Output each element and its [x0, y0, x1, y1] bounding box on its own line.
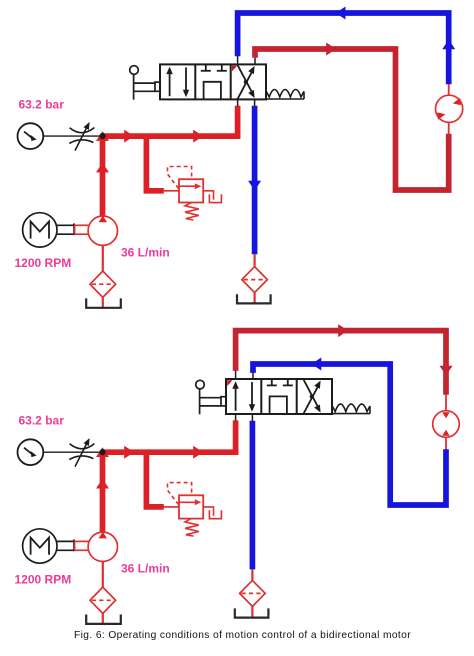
svg-text:1200 RPM: 1200 RPM	[15, 572, 72, 586]
DV1 right position: crossed flow arrows	[238, 65, 255, 98]
wire: pump pressure riser (fig 2)	[96, 447, 109, 532]
value label "63.2 bar" (fig 1)	[19, 98, 65, 112]
svg-text:36 L/min: 36 L/min	[121, 246, 170, 260]
DV1 left position: parallel flow arrows	[166, 67, 189, 98]
wire: T-port return to filter (blue, fig 1)	[248, 99, 261, 303]
shaft coupling motor-pump (fig 2)	[57, 540, 89, 552]
pressure gauge G2 (63.2 bar)	[18, 439, 44, 465]
tank T1b (relief drain)	[209, 194, 221, 202]
shaft coupling motor-pump (fig 1)	[57, 223, 89, 235]
hydraulic motor HM1 (bidirectional)	[436, 95, 463, 122]
hydraulic pump P1	[88, 216, 117, 246]
svg-text:36 L/min: 36 L/min	[121, 562, 170, 576]
wire: T-port return to filter (blue, fig 2)	[251, 415, 253, 618]
suction filter F1a	[90, 271, 116, 297]
electric motor M2	[23, 529, 57, 563]
directional valve DV2 4/3 body	[226, 379, 332, 414]
flow control valve FC2	[69, 438, 94, 467]
node: supply junction J2	[100, 449, 106, 455]
tank T1c (return)	[237, 294, 271, 303]
wire: pump suction line (fig 1)	[102, 245, 104, 307]
wire: B-port return line motor to valve (blue, fig 2)	[253, 358, 446, 506]
svg-text:Fig. 6: Operating conditions o: Fig. 6: Operating conditions of motion c…	[74, 630, 411, 641]
return filter F2b	[240, 580, 266, 606]
directional valve DV1 4/3 body	[160, 64, 266, 99]
flow control valve FC1	[69, 122, 94, 151]
pressure relief valve RV1	[168, 167, 214, 221]
wire: supply rail to valve P port (fig 2)	[103, 414, 236, 459]
wire: supply rail to valve P port (fig 1)	[103, 99, 238, 142]
wire: gauge line to junction (fig 1)	[43, 135, 102, 137]
tank T2c (return)	[235, 608, 269, 617]
DV2 return spring	[332, 404, 370, 414]
return filter F1b	[242, 267, 268, 293]
DV1 manual lever actuator	[130, 66, 161, 100]
DV1 centre position: blocked ports	[201, 64, 227, 99]
value label "1200 RPM" (fig 1)	[15, 256, 72, 270]
DV2 right position: crossed flow arrows	[304, 380, 321, 413]
wire: A-port return line valve to motor (blue, fig 1)	[238, 7, 456, 96]
wire: relief valve branch (fig 2)	[146, 454, 179, 507]
svg-text:63.2 bar: 63.2 bar	[19, 414, 65, 428]
node: supply junction J1	[100, 133, 106, 139]
hydraulic motor HM2 (bidirectional)	[433, 411, 460, 438]
DV2 centre position: blocked ports	[267, 379, 293, 414]
svg-text:63.2 bar: 63.2 bar	[19, 98, 65, 112]
caption: figure title	[74, 630, 411, 641]
value label "63.2 bar" (fig 2)	[19, 414, 65, 428]
value label "36 L/min" (fig 1)	[121, 246, 170, 260]
svg-text:1200 RPM: 1200 RPM	[15, 256, 72, 270]
DV2 manual lever actuator	[196, 380, 227, 414]
DV2 left position: parallel flow arrows	[232, 381, 255, 412]
electric motor M1	[23, 213, 57, 247]
DV1 pressurised port wedge	[232, 66, 237, 72]
wire: relief valve branch (fig 1)	[146, 138, 179, 191]
value label "36 L/min" (fig 2)	[121, 562, 170, 576]
value label "1200 RPM" (fig 2)	[15, 572, 72, 586]
tank T1a (suction)	[86, 298, 121, 307]
DV2 pressurised port wedge	[227, 380, 232, 386]
DV1 return spring	[266, 90, 304, 100]
wire: pump suction line (fig 2)	[102, 562, 104, 624]
wire: B-port pressure line valve to motor (red, fig 1)	[255, 43, 449, 191]
wire: A-port pressure line valve to motor (red, fig 2)	[236, 324, 453, 411]
suction filter F2a	[90, 587, 116, 613]
tank T2b (relief drain)	[209, 510, 221, 518]
tank T2a (suction)	[86, 615, 121, 624]
wire: pump pressure riser (fig 1)	[96, 131, 109, 216]
hydraulic pump P2	[88, 532, 117, 562]
pressure relief valve RV2	[168, 483, 214, 536]
wire: gauge line to junction (fig 2)	[43, 451, 102, 453]
pressure gauge G1 (63.2 bar)	[18, 123, 44, 149]
